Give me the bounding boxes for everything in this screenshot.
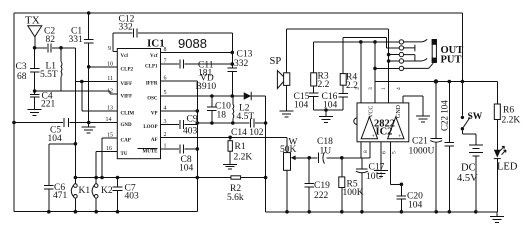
IC2 pin gnd stub down: [380, 142, 382, 171]
speaker SP: [286, 29, 288, 111]
IC1 pin numbers left: [106, 46, 114, 152]
svg-text:C17: C17: [369, 163, 385, 173]
svg-text:4.5V: 4.5V: [457, 173, 478, 184]
svg-text:C18: C18: [317, 137, 333, 147]
wire R4 top feed: [343, 38, 399, 74]
svg-text:13: 13: [107, 105, 113, 111]
wire tank bottom: [197, 122, 265, 124]
svg-text:VIFF: VIFF: [121, 82, 133, 87]
svg-text:222: 222: [314, 191, 329, 201]
svg-text:Vcf: Vcf: [121, 54, 129, 59]
capacitor C21 electrolytic: [435, 82, 437, 139]
svg-text:3: 3: [368, 87, 374, 90]
svg-text:K1: K1: [79, 186, 91, 196]
svg-text:1U: 1U: [320, 147, 332, 157]
wire pin15: [102, 138, 117, 178]
node C1 column meets pin14 wire: [87, 121, 91, 125]
capacitor C5: [64, 118, 69, 127]
wire pin11 row: [75, 81, 117, 83]
jack contacts circles: [399, 40, 403, 44]
svg-text:C13: C13: [237, 50, 253, 60]
svg-text:2.2: 2.2: [318, 80, 330, 90]
svg-text:VIFF: VIFF: [121, 95, 133, 100]
svg-text:C14 102: C14 102: [231, 128, 264, 138]
ground at pin14: [88, 123, 90, 128]
wire top supply rail: [14, 12, 462, 14]
inductor L2: [232, 96, 234, 104]
diode VD B910: [244, 92, 252, 100]
svg-text:C3: C3: [16, 62, 27, 72]
svg-text:6: 6: [382, 151, 388, 154]
wire left border: [13, 13, 15, 212]
svg-text:221: 221: [41, 100, 56, 110]
svg-text:K2: K2: [101, 186, 113, 196]
svg-text:CLIM: CLIM: [121, 111, 135, 116]
resonator K1: [74, 178, 76, 212]
svg-text:11: 11: [107, 76, 113, 82]
svg-text:18: 18: [217, 111, 227, 121]
svg-text:B910: B910: [196, 82, 217, 92]
antenna TX: [28, 26, 42, 37]
resistor R2: [231, 176, 241, 179]
wire C15/C16 common to ground: [314, 110, 344, 117]
svg-text:403: 403: [125, 192, 140, 202]
IC1 pin numbers right: [164, 47, 167, 149]
ground below C4: [28, 109, 42, 115]
wire pin9 up and over (C12 wire): [113, 33, 232, 52]
IC2 pin stub down 2: [369, 142, 371, 158]
IC2 pin4 wire to ground: [403, 96, 423, 116]
volume pot W 50K: [286, 137, 288, 212]
node bus junction C8: [196, 147, 200, 151]
svg-text:IFFR: IFFR: [146, 82, 158, 87]
resistor R5: [340, 156, 344, 160]
wire C5 pin14 row: [14, 122, 117, 124]
IC2 pin stub down to C20 wire: [391, 142, 402, 185]
op-amp U2a triangle: [361, 117, 377, 139]
wire AF pin2 long run to volume pot: [161, 136, 288, 138]
svg-text:LED: LED: [497, 162, 518, 173]
capacitor C2: [35, 47, 76, 49]
svg-text:4.5T: 4.5T: [237, 112, 255, 122]
wire jack feed vertical: [388, 29, 390, 103]
svg-text:2: 2: [355, 87, 361, 90]
svg-text:VCC: VCC: [369, 106, 375, 118]
svg-text:C22 104: C22 104: [440, 100, 450, 131]
wire C6 to K1 link: [49, 143, 76, 145]
inductor L1: [60, 48, 62, 62]
jack contact springs: [404, 39, 428, 42]
capacitor C1: [87, 11, 91, 15]
wire supply row y=81.5: [375, 81, 497, 83]
svg-text:6: 6: [164, 76, 167, 82]
resistor R1: [228, 136, 232, 140]
svg-text:C21: C21: [412, 137, 428, 147]
capacitor C17 electrolytic: [361, 158, 363, 169]
svg-text:9: 9: [108, 46, 111, 52]
wire pin16: [96, 152, 117, 178]
svg-text:5: 5: [164, 90, 167, 96]
svg-text:IC1: IC1: [147, 38, 165, 50]
svg-text:C9: C9: [187, 115, 198, 125]
svg-text:SW: SW: [468, 112, 483, 122]
IC1 box 9088: [117, 49, 160, 159]
wire pin10 row: [89, 66, 118, 68]
svg-text:100K: 100K: [343, 188, 364, 198]
svg-text:1: 1: [381, 87, 387, 90]
svg-text:CAP: CAP: [121, 138, 131, 143]
resistor R4: [340, 74, 346, 86]
capacitor C9 pin3 row: [161, 124, 198, 126]
wire wiper row: [296, 157, 370, 159]
capacitor C12: [134, 29, 137, 38]
svg-text:403: 403: [183, 127, 198, 137]
resistor R6: [496, 82, 498, 105]
svg-text:9088: 9088: [178, 36, 207, 51]
svg-text:GND: GND: [396, 104, 402, 118]
wire K1 column: [74, 48, 76, 178]
svg-text:GND: GND: [121, 123, 133, 128]
svg-text:82: 82: [46, 35, 56, 45]
node bus junction tank bottom: [196, 121, 200, 125]
svg-text:CLP1: CLP1: [145, 65, 158, 70]
svg-text:16: 16: [106, 146, 112, 152]
svg-text:104: 104: [408, 201, 423, 211]
capacitor C7: [117, 178, 119, 212]
battery DC 4.5V: [469, 145, 483, 156]
capacitor C13: [231, 52, 233, 96]
wire IC2 pin2 vertical: [360, 42, 362, 103]
capacitor C20: [400, 184, 402, 212]
ground main bottom right: [496, 212, 498, 217]
svg-text:TX: TX: [25, 15, 40, 27]
svg-text:10U: 10U: [366, 172, 383, 182]
svg-text:AF: AF: [151, 138, 158, 143]
node pin13 branch: [80, 80, 84, 84]
svg-text:5.6k: 5.6k: [227, 193, 244, 203]
node bus junction pin4 row: [196, 109, 200, 113]
svg-text:50K: 50K: [280, 145, 297, 155]
svg-text:5.5T: 5.5T: [40, 70, 58, 80]
wire R3 top feed to jack row1: [314, 42, 400, 73]
svg-text:471: 471: [53, 191, 68, 201]
svg-text:Vcf: Vcf: [150, 54, 158, 59]
svg-text:8: 8: [363, 150, 369, 153]
IC1 left pin stubs: [113, 50, 117, 52]
svg-text:MUTE: MUTE: [143, 150, 159, 155]
svg-text:14: 14: [106, 117, 112, 123]
capacitor C10: [211, 96, 213, 123]
wire pin13 row: [82, 82, 118, 112]
capacitor C14: [251, 119, 254, 128]
capacitor C22: [448, 82, 450, 212]
wire bottom right rail: [266, 211, 497, 213]
wire tank top pin5 row: [161, 95, 266, 97]
wire pin12 row: [35, 91, 118, 94]
IC2 pin1 stub down: [360, 142, 362, 158]
capacitor C19: [307, 156, 311, 160]
wire IC2 pin3 vertical: [374, 42, 376, 103]
svg-text:LOOP: LOOP: [143, 125, 157, 130]
jack sleeve body: [432, 40, 436, 63]
jack contact rows: [375, 42, 399, 69]
IC2 box 2822: [357, 103, 409, 142]
svg-text:68: 68: [17, 72, 27, 82]
svg-text:2.2K: 2.2K: [234, 153, 253, 163]
svg-text:15: 15: [107, 132, 113, 138]
wire IC1 pin6 to bus: [161, 80, 198, 82]
svg-text:R6: R6: [503, 106, 514, 116]
wire vertical bus x=197: [196, 81, 198, 212]
svg-text:C19: C19: [314, 181, 330, 191]
capacitor C15: [313, 86, 315, 110]
node tank top junctions: [210, 94, 214, 98]
IC1 inner labels left: [121, 54, 135, 157]
LED: [494, 150, 501, 158]
svg-text:VP: VP: [151, 111, 158, 116]
ground below SP: [280, 111, 294, 117]
svg-text:DC: DC: [461, 163, 476, 174]
capacitor C4: [30, 95, 40, 97]
op-amp U2b triangle: [388, 117, 404, 139]
resistor R3: [311, 73, 317, 86]
svg-text:10: 10: [107, 61, 113, 67]
wire bottom distribution row: [75, 177, 265, 179]
svg-text:IC2: IC2: [376, 127, 393, 138]
svg-text:2.2K: 2.2K: [502, 116, 521, 126]
capacitor C8 pin1 row: [161, 148, 198, 150]
svg-text:4: 4: [396, 87, 402, 90]
svg-text:332: 332: [234, 59, 249, 69]
capacitor C18 electrolytic: [317, 153, 319, 164]
svg-text:CLP2: CLP2: [121, 67, 134, 72]
svg-text:R1: R1: [235, 142, 246, 152]
node C1/pin10 junction: [87, 65, 91, 69]
wire pin8 row: [161, 51, 233, 53]
svg-text:12: 12: [107, 89, 113, 95]
svg-text:331: 331: [69, 35, 84, 45]
svg-text:1000U: 1000U: [409, 147, 435, 157]
svg-text:SP: SP: [270, 56, 282, 67]
node antenna junction: [33, 46, 37, 50]
IC1 inner labels right: [143, 54, 159, 155]
resonator K2: [95, 178, 97, 212]
capacitor C16: [342, 85, 344, 110]
capacitor C3: [34, 48, 36, 91]
svg-text:5: 5: [392, 151, 398, 154]
switch SW: [461, 13, 463, 116]
svg-text:OSC: OSC: [147, 96, 158, 101]
node C3/C4/pin12 junction: [33, 89, 37, 93]
svg-text:104: 104: [179, 164, 194, 174]
wire tank right vertical: [265, 96, 267, 212]
capacitor C6: [48, 144, 50, 212]
svg-text:TU: TU: [121, 152, 128, 157]
node rail junctions: [47, 210, 51, 214]
wire right half top: [287, 28, 389, 30]
wire pin4 row: [161, 110, 198, 112]
capacitor C11 on pin7 row: [161, 63, 233, 65]
node bus junction bottom wire: [196, 176, 200, 180]
svg-text:104: 104: [48, 134, 63, 144]
svg-text:332: 332: [119, 23, 134, 33]
svg-text:104: 104: [294, 101, 309, 111]
wire bottom left ground rail: [14, 211, 197, 213]
svg-text:PUT: PUT: [441, 55, 462, 66]
